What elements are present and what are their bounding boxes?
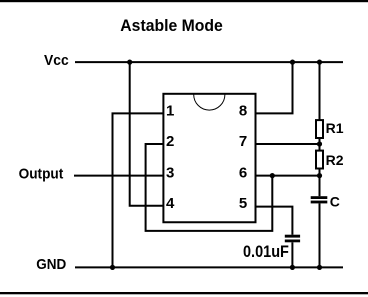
resistor R1: [316, 120, 323, 138]
svg-text:Output: Output: [19, 166, 64, 183]
junction dot Vcc / pin4 wire: [127, 60, 132, 65]
wire GND rail: [75, 266, 343, 268]
wire pin 1 to GND rail: [113, 113, 164, 267]
svg-text:4: 4: [166, 195, 175, 212]
wire capacitor C to GND rail: [319, 203, 321, 267]
junction dot Vcc / pin8 wire: [290, 60, 295, 65]
bypass capacitor bottom plate: [285, 240, 300, 243]
svg-text:3: 3: [166, 164, 174, 181]
wire Output to pin 3: [74, 175, 163, 177]
svg-text:C: C: [330, 194, 340, 210]
resistor R2: [316, 151, 323, 169]
wire R1 bottom to R2 top: [319, 139, 321, 152]
svg-text:Vcc: Vcc: [44, 52, 69, 69]
svg-text:R2: R2: [326, 152, 344, 168]
svg-text:7: 7: [239, 133, 247, 150]
svg-text:5: 5: [239, 195, 247, 212]
wire pin 8 to Vcc rail: [256, 62, 293, 113]
svg-text:0.01uF: 0.01uF: [243, 242, 289, 261]
junction dot pin 6 / loop wire: [270, 173, 275, 178]
wire Vcc rail to pin 4: [130, 62, 164, 206]
wire pin 2 to pin 6 loop: [146, 144, 273, 231]
svg-text:R1: R1: [326, 120, 344, 136]
svg-text:GND: GND: [36, 256, 66, 273]
wire pin 7 to R1/R2 junction: [256, 143, 320, 145]
junction dot GND / pin1 wire: [110, 265, 115, 270]
bypass capacitor top plate: [285, 235, 300, 238]
junction dot GND / bypass capacitor: [290, 265, 295, 270]
wire R2 bottom through pin6 node to capacitor C: [319, 169, 321, 196]
IC notch: [194, 95, 225, 111]
junction dot pin 6 / R2-C: [317, 173, 322, 178]
wire pin 5 to bypass capacitor: [256, 207, 293, 235]
junction dot GND / capacitor C: [317, 265, 322, 270]
junction dot Vcc / R1 wire: [317, 60, 322, 65]
svg-text:2: 2: [166, 133, 174, 150]
capacitor C top plate: [311, 196, 328, 199]
junction dot pin 7 / R1-R2: [317, 141, 322, 146]
svg-text:8: 8: [239, 102, 247, 119]
svg-text:1: 1: [166, 102, 174, 119]
wire Vcc rail: [75, 61, 343, 63]
IC 555 body: [163, 94, 255, 222]
wire Vcc rail to R1 top: [319, 62, 321, 120]
svg-text:6: 6: [239, 164, 247, 181]
wire bypass capacitor to GND rail: [291, 242, 293, 267]
wire pin 6 to R2/C junction: [256, 175, 320, 177]
svg-text:Astable Mode: Astable Mode: [120, 16, 223, 35]
capacitor C bottom plate: [311, 201, 328, 204]
